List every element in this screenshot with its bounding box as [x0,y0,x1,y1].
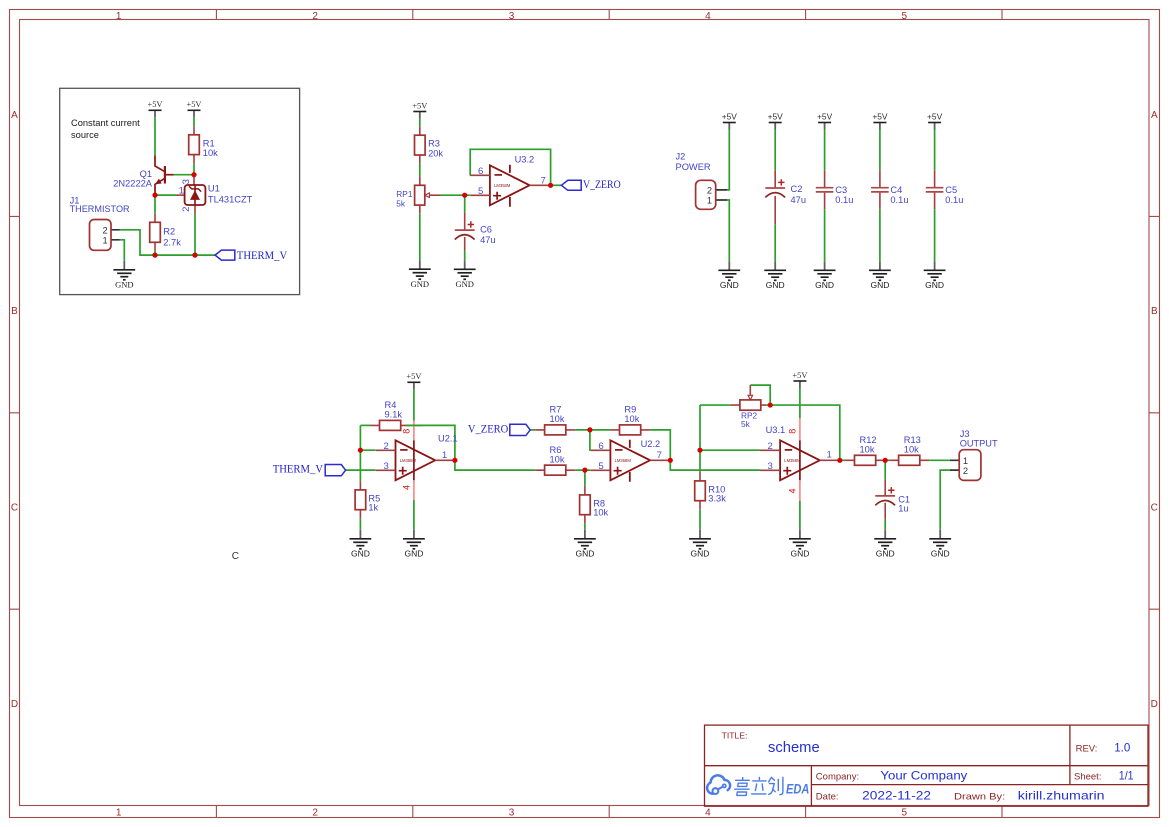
svg-text:2: 2 [963,466,968,476]
svg-text:9.1k: 9.1k [385,410,403,420]
svg-text:3: 3 [509,11,515,22]
svg-text:R7: R7 [550,405,562,415]
svg-text:5k: 5k [741,419,751,429]
svg-text:5: 5 [902,11,908,22]
svg-text:U3.2: U3.2 [515,154,535,164]
svg-text:Sheet:: Sheet: [1074,772,1101,783]
svg-text:1: 1 [707,196,712,206]
svg-text:R9: R9 [624,405,636,415]
svg-text:6: 6 [478,166,483,177]
svg-text:+5V: +5V [148,100,163,109]
svg-text:C6: C6 [480,224,492,234]
svg-text:source: source [71,130,99,140]
svg-text:2.7k: 2.7k [163,237,181,247]
svg-text:0.1u: 0.1u [835,195,853,205]
svg-text:Date:: Date: [816,791,839,802]
svg-text:20k: 20k [428,148,443,158]
svg-text:TITLE:: TITLE: [722,731,748,741]
svg-text:scheme: scheme [768,739,820,756]
svg-text:1u: 1u [898,503,908,513]
svg-text:V_ZERO: V_ZERO [468,423,508,435]
svg-text:R4: R4 [385,400,397,410]
svg-text:GND: GND [115,279,133,289]
svg-text:2: 2 [384,441,389,452]
svg-text:U2.1: U2.1 [438,433,458,443]
svg-text:THERMISTOR: THERMISTOR [70,204,130,214]
svg-text:U1: U1 [208,184,220,194]
svg-text:2: 2 [103,225,108,235]
svg-text:GND: GND [931,548,950,558]
svg-text:EDA: EDA [786,782,809,797]
svg-text:REV:: REV: [1076,744,1098,755]
svg-text:GND: GND [766,280,785,290]
svg-text:2: 2 [768,441,773,452]
svg-text:C2: C2 [791,184,803,194]
svg-text:+5V: +5V [872,111,888,121]
svg-text:R12: R12 [860,435,877,445]
svg-text:3.3k: 3.3k [708,493,726,503]
svg-text:GND: GND [815,280,834,290]
svg-text:Drawn By:: Drawn By: [954,791,1005,802]
svg-text:GND: GND [925,280,944,290]
svg-text:GND: GND [870,280,889,290]
svg-text:D: D [1151,699,1158,710]
svg-text:+5V: +5V [817,111,833,121]
svg-text:1: 1 [103,235,108,245]
svg-text:GND: GND [876,548,895,558]
svg-text:+5V: +5V [927,111,943,121]
svg-text:RP1: RP1 [396,189,413,199]
svg-text:1.0: 1.0 [1114,741,1130,755]
svg-text:10k: 10k [550,454,565,464]
svg-text:1k: 1k [368,503,378,513]
svg-text:GND: GND [720,280,739,290]
svg-text:D: D [11,699,18,710]
svg-text:5k: 5k [396,199,406,209]
svg-text:4: 4 [787,488,797,493]
svg-text:R1: R1 [203,138,215,148]
svg-text:V_ZERO: V_ZERO [583,179,621,191]
svg-text:Your Company: Your Company [880,768,967,782]
svg-text:2: 2 [181,207,192,212]
svg-text:0.1u: 0.1u [890,195,908,205]
svg-text:THERM_V: THERM_V [237,250,288,262]
svg-text:1: 1 [442,450,447,461]
svg-text:C: C [11,503,18,514]
svg-text:10k: 10k [593,507,608,517]
svg-text:GND: GND [691,548,710,558]
svg-text:2N2222A: 2N2222A [113,179,153,189]
svg-text:1/1: 1/1 [1119,768,1134,782]
svg-text:A: A [11,110,18,121]
svg-text:GND: GND [411,279,429,289]
svg-text:1: 1 [179,185,184,196]
svg-text:TL431CZT: TL431CZT [208,195,253,205]
svg-text:1: 1 [116,807,122,818]
svg-text:+5V: +5V [412,101,427,110]
svg-text:5: 5 [598,461,603,472]
svg-text:R3: R3 [428,139,440,149]
svg-text:10k: 10k [860,444,875,454]
svg-text:C5: C5 [945,185,957,195]
svg-text:GND: GND [455,279,473,289]
svg-text:B: B [11,306,18,317]
svg-text:GND: GND [575,548,594,558]
svg-text:1: 1 [827,450,832,461]
svg-text:Constant current: Constant current [71,118,140,128]
svg-text:C3: C3 [835,185,847,195]
svg-text:4: 4 [705,11,711,22]
svg-text:7: 7 [657,450,662,461]
svg-text:OUTPUT: OUTPUT [960,438,998,448]
svg-text:A: A [1151,110,1158,121]
svg-text:3: 3 [384,461,389,472]
svg-text:POWER: POWER [676,162,711,172]
svg-text:8: 8 [401,429,411,434]
svg-text:J2: J2 [676,151,686,161]
svg-text:3: 3 [181,179,192,184]
svg-text:10k: 10k [550,414,565,424]
svg-text:GND: GND [790,548,809,558]
svg-text:+5V: +5V [792,371,807,380]
svg-text:4: 4 [401,485,411,490]
svg-text:1: 1 [963,456,968,466]
svg-text:10k: 10k [904,444,919,454]
svg-text:2022-11-22: 2022-11-22 [862,788,931,802]
svg-text:8: 8 [787,429,797,434]
svg-text:B: B [1151,306,1158,317]
svg-text:U2.2: U2.2 [641,439,661,449]
svg-text:C: C [1151,503,1158,514]
svg-text:2: 2 [312,11,318,22]
svg-text:6: 6 [598,441,603,452]
svg-text:4: 4 [705,807,711,818]
svg-text:+5V: +5V [768,111,784,121]
svg-text:kirill.zhumarin: kirill.zhumarin [1018,788,1105,802]
svg-text:+5V: +5V [722,111,738,121]
svg-text:10k: 10k [203,148,218,158]
svg-text:+5V: +5V [406,372,421,381]
svg-text:3: 3 [768,461,773,472]
svg-text:5: 5 [478,186,483,197]
svg-text:THERM_V: THERM_V [273,464,324,476]
svg-text:0.1u: 0.1u [945,195,963,205]
svg-text:Company:: Company: [816,772,859,783]
svg-text:47u: 47u [480,235,496,245]
svg-text:C: C [232,551,239,562]
svg-text:10k: 10k [624,414,639,424]
svg-text:C4: C4 [890,185,902,195]
svg-text:5: 5 [902,807,908,818]
svg-text:GND: GND [404,548,423,558]
svg-text:Q1: Q1 [140,169,152,179]
svg-text:2: 2 [312,807,318,818]
svg-text:U3.1: U3.1 [766,425,786,435]
svg-text:GND: GND [351,548,370,558]
svg-text:7: 7 [541,175,546,186]
svg-text:1: 1 [116,11,122,22]
svg-text:R13: R13 [904,435,921,445]
svg-text:R6: R6 [550,445,562,455]
svg-text:+5V: +5V [187,100,202,109]
svg-text:47u: 47u [791,195,807,205]
svg-text:3: 3 [509,807,515,818]
svg-text:R2: R2 [163,227,175,237]
svg-text:2: 2 [707,186,712,196]
